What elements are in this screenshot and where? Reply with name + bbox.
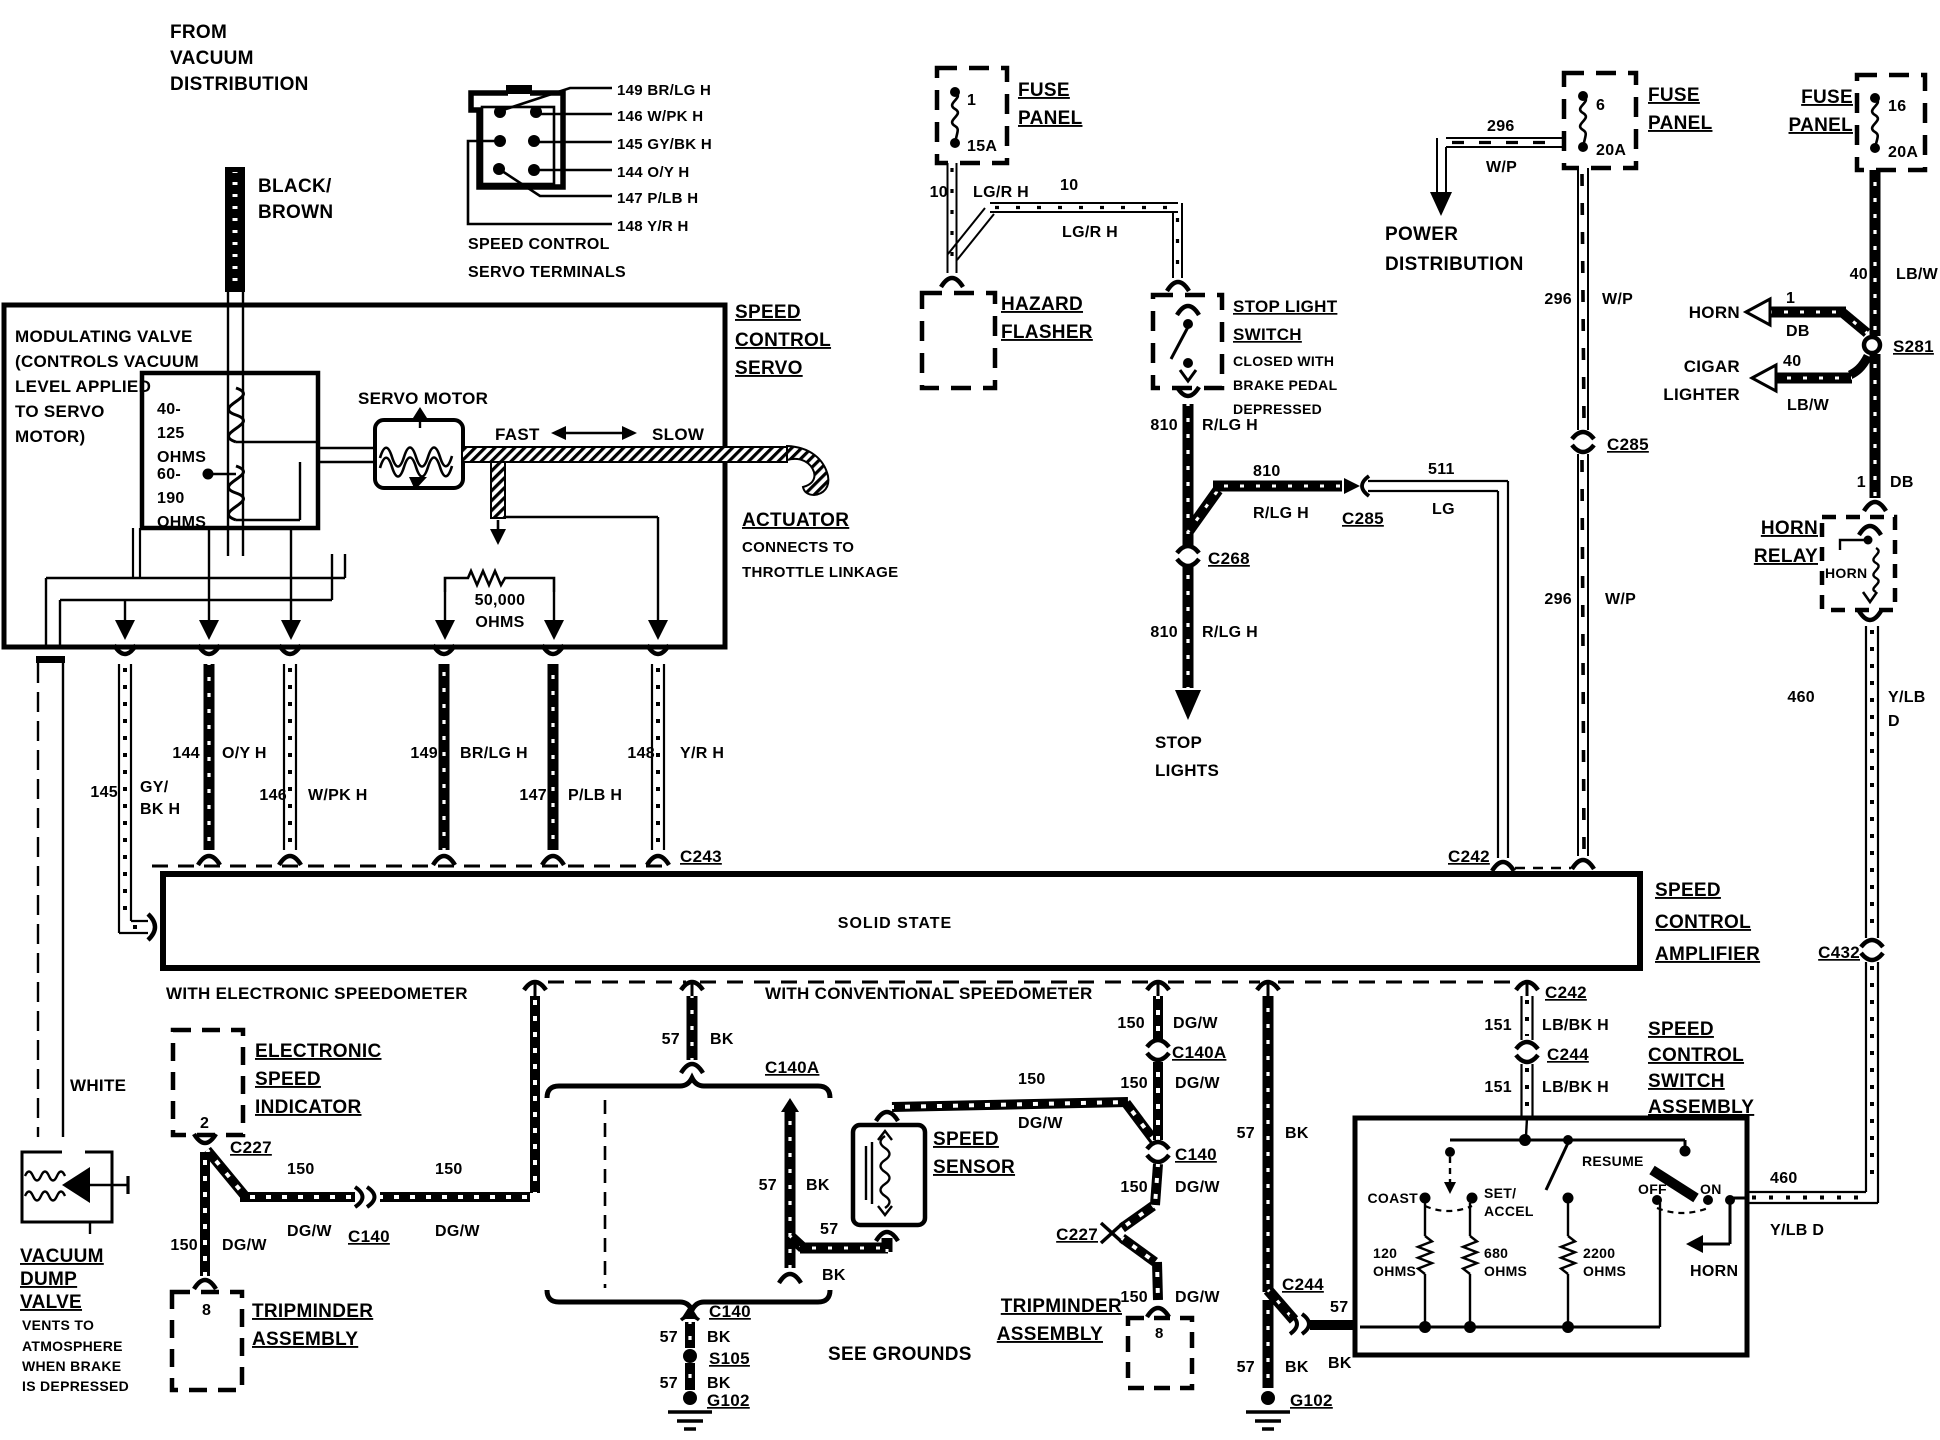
- fuse panel 1 box: [937, 68, 1007, 163]
- svg-text:ON: ON: [1700, 1181, 1722, 1197]
- svg-text:BK: BK: [806, 1177, 830, 1194]
- connector at wire 144 top: [198, 645, 220, 654]
- svg-text:150: 150: [287, 1161, 315, 1178]
- svg-text:Y/LB: Y/LB: [1888, 689, 1926, 706]
- svg-text:STOP: STOP: [1155, 733, 1202, 752]
- svg-text:C268: C268: [1208, 549, 1250, 568]
- svg-text:C244: C244: [1547, 1045, 1589, 1064]
- connector at stop light switch: [1167, 282, 1189, 291]
- contact COAST: [1420, 1193, 1431, 1204]
- svg-text:LG/R H: LG/R H: [973, 184, 1029, 201]
- splice S105: [683, 1349, 697, 1363]
- coil 60-190 ohms: [228, 466, 243, 520]
- wire vacuum tube into servo: [227, 292, 229, 556]
- leader 148 Y/R H: [468, 141, 612, 224]
- svg-text:TRIPMINDER: TRIPMINDER: [252, 1301, 373, 1322]
- svg-text:296: 296: [1487, 118, 1515, 135]
- svg-text:HORN: HORN: [1689, 303, 1740, 322]
- svg-text:OHMS: OHMS: [157, 449, 206, 466]
- svg-text:DG/W: DG/W: [1175, 1179, 1220, 1196]
- svg-text:Y/R H: Y/R H: [680, 745, 724, 762]
- hazard flasher box: [922, 293, 995, 388]
- tripminder assembly box left: [172, 1292, 242, 1390]
- svg-text:R/LG H: R/LG H: [1253, 505, 1309, 522]
- svg-text:SPEED: SPEED: [1648, 1019, 1714, 1040]
- wire 150 DG/W left branch: [207, 1150, 245, 1196]
- interior tube wire left: [46, 577, 345, 579]
- svg-text:BRAKE PEDAL: BRAKE PEDAL: [1233, 377, 1338, 393]
- wire 57 BK to C244: [1268, 1290, 1294, 1320]
- svg-text:CLOSED WITH: CLOSED WITH: [1233, 353, 1334, 369]
- leader 147 P/LB H: [499, 169, 612, 196]
- resume switch arm: [1563, 1135, 1573, 1145]
- fuse panel 3 box: [1857, 75, 1925, 170]
- speed sensor box: [853, 1125, 925, 1225]
- svg-text:LG: LG: [1432, 501, 1455, 518]
- svg-text:15A: 15A: [967, 138, 997, 155]
- on/off switch: [1684, 1140, 1687, 1148]
- resistor 2200 ohms: [1567, 1203, 1569, 1236]
- svg-text:296: 296: [1544, 291, 1572, 308]
- wire 57 BK below amplifier: [687, 996, 698, 1060]
- svg-text:C140: C140: [1175, 1145, 1217, 1164]
- wire 151 inside box: [1526, 1118, 1527, 1136]
- svg-text:RELAY: RELAY: [1754, 546, 1818, 567]
- svg-text:SET/: SET/: [1484, 1185, 1516, 1201]
- svg-text:S105: S105: [709, 1349, 750, 1368]
- wire 57 BK speed sensor loop: [781, 1098, 799, 1112]
- svg-text:WHEN BRAKE: WHEN BRAKE: [22, 1358, 121, 1374]
- wire 149 BR/LG H: [439, 664, 450, 850]
- svg-text:FUSE: FUSE: [1648, 85, 1700, 106]
- arrow to CIGAR LIGHTER: [1752, 365, 1776, 391]
- svg-text:680: 680: [1484, 1245, 1508, 1261]
- arrow to pin 145: [124, 600, 126, 622]
- box modulating valve coils: [142, 373, 318, 528]
- leader 144 O/Y H: [534, 169, 612, 172]
- connector C140 left: [355, 1187, 363, 1207]
- svg-text:SPEED: SPEED: [255, 1069, 321, 1090]
- pin 145: [528, 135, 540, 147]
- svg-text:148 Y/R H: 148 Y/R H: [617, 218, 689, 235]
- svg-text:57: 57: [820, 1221, 838, 1238]
- svg-text:8: 8: [202, 1302, 211, 1319]
- svg-text:P/LB H: P/LB H: [568, 787, 622, 804]
- junction dot bus: [1519, 1134, 1531, 1146]
- svg-text:C140: C140: [348, 1227, 390, 1246]
- ground G102 right: [1261, 1391, 1275, 1405]
- connector at wire 147 bottom: [542, 856, 564, 865]
- svg-text:SENSOR: SENSOR: [933, 1157, 1015, 1178]
- svg-text:W/PK H: W/PK H: [308, 787, 368, 804]
- stop light switch contacts: [1177, 306, 1199, 315]
- svg-text:COAST: COAST: [1368, 1190, 1419, 1206]
- wire 10 LG/R H branch to stop light switch: [948, 208, 985, 254]
- connector C285 vertical: [1572, 432, 1594, 439]
- connector C227 right: [1101, 1223, 1112, 1243]
- connector at wire 148 top: [647, 645, 669, 654]
- wire 150 DG/W conventional upper: [1153, 996, 1163, 1040]
- horn tap inside switch assembly: [1729, 1203, 1732, 1244]
- svg-text:TO SERVO: TO SERVO: [15, 402, 105, 421]
- wire 1 DB to horn: [1843, 313, 1867, 333]
- servo motor arrow down: [409, 477, 427, 490]
- svg-text:296: 296: [1544, 591, 1572, 608]
- horn relay contacts and coil: [1859, 526, 1881, 535]
- svg-text:ATMOSPHERE: ATMOSPHERE: [22, 1338, 123, 1354]
- svg-text:LIGHTER: LIGHTER: [1663, 385, 1740, 404]
- svg-text:57: 57: [662, 1031, 680, 1048]
- svg-text:ASSEMBLY: ASSEMBLY: [1648, 1097, 1754, 1118]
- wire 150 DG/W to C227 right: [1155, 1164, 1158, 1205]
- svg-text:VACUUM: VACUUM: [20, 1246, 104, 1267]
- svg-text:CONNECTS TO: CONNECTS TO: [742, 539, 854, 556]
- svg-text:8: 8: [1155, 1325, 1164, 1342]
- svg-text:SEE GROUNDS: SEE GROUNDS: [828, 1344, 972, 1365]
- svg-text:OHMS: OHMS: [1373, 1263, 1416, 1279]
- svg-text:BK: BK: [1328, 1355, 1352, 1372]
- svg-text:150: 150: [1120, 1179, 1148, 1196]
- dashed stub inside braces: [604, 1100, 607, 1288]
- svg-text:BK H: BK H: [140, 801, 180, 818]
- svg-text:FUSE: FUSE: [1018, 80, 1070, 101]
- svg-text:150: 150: [1120, 1289, 1148, 1306]
- svg-text:C432: C432: [1818, 943, 1860, 962]
- wire 150 DG/W between C140A and C140: [1153, 1062, 1163, 1140]
- brace C140A top: [547, 1078, 830, 1098]
- svg-text:POWER: POWER: [1385, 224, 1458, 245]
- actuator hatched rod: [462, 447, 787, 462]
- svg-text:C140A: C140A: [765, 1058, 819, 1077]
- box speed control switch assembly: [1355, 1118, 1747, 1355]
- fuse 1 15A: [950, 87, 960, 97]
- connector C244 horizontal: [1290, 1314, 1297, 1334]
- svg-text:125: 125: [157, 425, 185, 442]
- svg-text:144: 144: [172, 745, 200, 762]
- svg-text:HORN: HORN: [1825, 565, 1867, 581]
- arrow power distribution: [1430, 192, 1452, 216]
- wire coils to motor: [318, 447, 375, 449]
- leader 149 BR/LG H: [503, 88, 612, 110]
- connector at wire 146 top: [279, 645, 301, 654]
- connector below speed sensor: [876, 1232, 898, 1241]
- svg-text:SERVO MOTOR: SERVO MOTOR: [358, 389, 488, 408]
- dashed joint at C242: [1515, 867, 1571, 870]
- connector at wire 147 top: [542, 645, 564, 654]
- wire 511 LG: [1368, 480, 1508, 482]
- wire 10 LG/R H fuse to hazard flasher: [947, 163, 949, 273]
- svg-text:C285: C285: [1607, 435, 1649, 454]
- svg-text:2: 2: [200, 1115, 209, 1132]
- wire 40 LB/W to cigar lighter: [1850, 356, 1868, 375]
- svg-text:GY/: GY/: [140, 779, 169, 796]
- speed sensor coil: [865, 1146, 867, 1200]
- svg-text:ACCEL: ACCEL: [1484, 1203, 1534, 1219]
- svg-text:PANEL: PANEL: [1018, 108, 1083, 129]
- svg-text:SWITCH: SWITCH: [1648, 1071, 1725, 1092]
- wire 296 W/P vertical: [1577, 168, 1579, 430]
- svg-text:C242: C242: [1448, 847, 1490, 866]
- svg-text:DEPRESSED: DEPRESSED: [1233, 401, 1322, 417]
- svg-text:10: 10: [1060, 177, 1078, 194]
- svg-text:CONTROL: CONTROL: [1648, 1045, 1744, 1066]
- svg-text:Y/LB D: Y/LB D: [1770, 1222, 1824, 1239]
- svg-text:W/P: W/P: [1486, 159, 1517, 176]
- pin 148: [494, 135, 506, 147]
- svg-text:SPEED: SPEED: [1655, 880, 1721, 901]
- wire off contact to bottom bus: [1659, 1203, 1661, 1327]
- svg-text:1: 1: [1857, 474, 1866, 491]
- actuator drop to 50000 ohms: [491, 462, 505, 518]
- junction dot modulating valve: [203, 469, 214, 480]
- box speed control servo: [4, 305, 725, 647]
- svg-text:810: 810: [1150, 417, 1178, 434]
- svg-text:HAZARD: HAZARD: [1001, 294, 1083, 315]
- svg-text:DISTRIBUTION: DISTRIBUTION: [1385, 254, 1524, 275]
- tripminder assembly box right: [1128, 1318, 1192, 1388]
- arrow to stop lights: [1175, 690, 1201, 720]
- svg-text:SPEED: SPEED: [735, 302, 801, 323]
- svg-text:RESUME: RESUME: [1582, 1153, 1644, 1169]
- wire white to vacuum dump valve: [36, 656, 65, 663]
- svg-text:FUSE: FUSE: [1801, 87, 1853, 108]
- svg-text:D: D: [1888, 713, 1900, 730]
- svg-text:TRIPMINDER: TRIPMINDER: [1001, 1296, 1122, 1317]
- svg-text:145: 145: [90, 784, 118, 801]
- svg-text:VALVE: VALVE: [20, 1292, 82, 1313]
- svg-text:SERVO TERMINALS: SERVO TERMINALS: [468, 264, 626, 281]
- connector at horn relay top: [1864, 502, 1886, 511]
- bottom bus switch assembly: [1360, 1326, 1660, 1329]
- connector C140A right: [1147, 1040, 1169, 1047]
- svg-text:DG/W: DG/W: [1018, 1115, 1063, 1132]
- svg-text:W/P: W/P: [1602, 291, 1633, 308]
- svg-text:C140: C140: [709, 1302, 751, 1321]
- arrow to pin 147: [553, 592, 555, 622]
- svg-text:ACTUATOR: ACTUATOR: [742, 510, 849, 531]
- svg-text:147 P/LB H: 147 P/LB H: [617, 190, 698, 207]
- wire 146 W/PK H: [283, 664, 285, 850]
- wire 57 BK into switch assembly: [1310, 1320, 1357, 1330]
- svg-text:INDICATOR: INDICATOR: [255, 1097, 362, 1118]
- wire 145 GY/BK H: [118, 664, 120, 933]
- svg-text:DUMP: DUMP: [20, 1269, 77, 1290]
- brace C140 bottom: [547, 1290, 830, 1310]
- pin 146: [530, 106, 542, 118]
- dashed harness line below amplifier: [548, 981, 686, 984]
- svg-text:57: 57: [1237, 1125, 1255, 1142]
- svg-text:57: 57: [759, 1177, 777, 1194]
- svg-text:DB: DB: [1890, 474, 1914, 491]
- arrow to pin 149: [444, 592, 446, 622]
- connector at wire 144 bottom: [198, 856, 220, 865]
- connector 57 conventional at amplifier: [1257, 982, 1279, 990]
- connector at wire 149 top: [433, 645, 455, 654]
- svg-text:144 O/Y H: 144 O/Y H: [617, 164, 689, 181]
- svg-text:ASSEMBLY: ASSEMBLY: [252, 1329, 358, 1350]
- svg-text:BLACK/: BLACK/: [258, 176, 332, 197]
- svg-text:1: 1: [1786, 290, 1795, 307]
- svg-text:2200: 2200: [1583, 1245, 1615, 1261]
- svg-text:W/P: W/P: [1605, 591, 1636, 608]
- svg-text:40-: 40-: [157, 401, 181, 418]
- arrow to pin 146: [290, 528, 292, 622]
- wire 151 LB/BK H lower: [1520, 1064, 1522, 1118]
- svg-text:150: 150: [1018, 1071, 1046, 1088]
- pin 147: [493, 163, 505, 175]
- connector C242 below amplifier: [1516, 982, 1538, 990]
- svg-text:C243: C243: [680, 847, 722, 866]
- svg-text:6: 6: [1596, 97, 1605, 114]
- svg-text:FROM: FROM: [170, 22, 227, 43]
- svg-text:145 GY/BK H: 145 GY/BK H: [617, 136, 712, 153]
- svg-text:20A: 20A: [1596, 142, 1626, 159]
- svg-text:LB/W: LB/W: [1896, 266, 1939, 283]
- svg-text:1: 1: [967, 92, 976, 109]
- wire 40 LB/W: [1870, 170, 1881, 336]
- svg-text:120: 120: [1373, 1245, 1397, 1261]
- svg-text:C227: C227: [230, 1138, 272, 1157]
- bus line switch assembly: [1450, 1139, 1685, 1142]
- connector at hazard flasher: [941, 278, 963, 287]
- svg-text:BK: BK: [1285, 1125, 1309, 1142]
- connector speed control servo terminals: [471, 93, 563, 187]
- wire actuator feedback: [505, 516, 658, 518]
- svg-text:DG/W: DG/W: [222, 1237, 267, 1254]
- svg-text:MOTOR): MOTOR): [15, 427, 85, 446]
- svg-text:OFF: OFF: [1638, 1181, 1667, 1197]
- svg-text:151: 151: [1484, 1079, 1512, 1096]
- connector C227 left: [194, 1134, 216, 1143]
- wire 150 DG/W to amplifier: [380, 1192, 530, 1202]
- wire 460 to switch assembly: [1733, 1197, 1747, 1200]
- svg-text:810: 810: [1150, 624, 1178, 641]
- connector C432: [1861, 940, 1883, 947]
- connector 57 at amplifier: [681, 982, 703, 990]
- svg-text:PANEL: PANEL: [1648, 113, 1713, 134]
- coast/set selector arm: [1445, 1147, 1455, 1157]
- wire 57 BK to ground right: [1263, 1300, 1274, 1388]
- svg-text:C140A: C140A: [1172, 1043, 1226, 1062]
- svg-text:40: 40: [1850, 266, 1868, 283]
- svg-text:SERVO: SERVO: [735, 358, 803, 379]
- svg-text:CONTROL: CONTROL: [735, 330, 831, 351]
- connector C285 horizontal: [1344, 478, 1360, 494]
- svg-text:20A: 20A: [1888, 144, 1918, 161]
- resistor 680 ohms: [1469, 1203, 1471, 1236]
- connector below stop light switch: [1177, 387, 1199, 396]
- arrow to pin 144: [208, 528, 210, 622]
- svg-text:DG/W: DG/W: [1175, 1075, 1220, 1092]
- svg-text:SWITCH: SWITCH: [1233, 325, 1302, 344]
- svg-text:57: 57: [660, 1329, 678, 1346]
- svg-text:CONTROL: CONTROL: [1655, 912, 1751, 933]
- wire 57 BK conventional: [1263, 996, 1274, 1292]
- svg-text:VACUUM: VACUUM: [170, 48, 254, 69]
- svg-text:60-: 60-: [157, 466, 181, 483]
- horn relay box: [1822, 517, 1895, 610]
- arrow to HORN: [1746, 299, 1770, 325]
- wire inner box bottom stubs: [132, 528, 134, 578]
- connector C268: [1177, 546, 1199, 553]
- svg-text:THROTTLE LINKAGE: THROTTLE LINKAGE: [742, 564, 898, 581]
- connector C244 vertical: [1516, 1042, 1538, 1049]
- resistor 120 ohms: [1424, 1203, 1426, 1236]
- vacuum dump valve: [22, 1152, 112, 1222]
- arrow to pin 148: [657, 517, 659, 622]
- leader 146 W/PK H: [536, 113, 612, 116]
- svg-text:SOLID STATE: SOLID STATE: [838, 915, 952, 932]
- wire 296 W/P to power distribution: [1446, 137, 1564, 139]
- selector dashed arc: [1425, 1206, 1472, 1211]
- connector C140 right: [1147, 1142, 1169, 1149]
- connector at wire 148 bottom: [647, 856, 669, 865]
- svg-text:OHMS: OHMS: [475, 614, 524, 631]
- electronic speed indicator box: [173, 1030, 243, 1135]
- svg-text:146 W/PK H: 146 W/PK H: [617, 108, 703, 125]
- svg-text:WHITE: WHITE: [70, 1076, 126, 1095]
- ground chain C140 S105 G102: [681, 1305, 699, 1319]
- svg-text:57: 57: [1330, 1299, 1348, 1316]
- svg-text:ELECTRONIC: ELECTRONIC: [255, 1041, 382, 1062]
- connector at wire 149 bottom: [433, 856, 455, 865]
- svg-text:LB/BK H: LB/BK H: [1542, 1017, 1609, 1034]
- svg-text:57: 57: [660, 1375, 678, 1392]
- wire 147 P/LB H: [548, 664, 559, 850]
- svg-text:50,000: 50,000: [475, 592, 526, 609]
- svg-text:146: 146: [259, 787, 287, 804]
- svg-text:150: 150: [1117, 1015, 1145, 1032]
- wire 150 DG/W sensor to C140A right: [892, 1102, 1128, 1107]
- svg-text:LB/BK H: LB/BK H: [1542, 1079, 1609, 1096]
- svg-text:460: 460: [1787, 689, 1815, 706]
- svg-text:WITH CONVENTIONAL SPEEDOMETER: WITH CONVENTIONAL SPEEDOMETER: [765, 984, 1093, 1003]
- wire 151 LB/BK H upper: [1520, 996, 1522, 1040]
- svg-text:S281: S281: [1893, 337, 1934, 356]
- svg-text:16: 16: [1888, 98, 1906, 115]
- svg-text:DG/W: DG/W: [287, 1223, 332, 1240]
- svg-text:BR/LG H: BR/LG H: [460, 745, 528, 762]
- connector C243 dashed line: [152, 865, 672, 868]
- svg-text:G102: G102: [1290, 1391, 1333, 1410]
- ground G102 left: [683, 1391, 697, 1405]
- connector at tripminder right: [1147, 1308, 1169, 1317]
- svg-text:MODULATING VALVE: MODULATING VALVE: [15, 327, 193, 346]
- wire 1 DB to horn relay: [1870, 354, 1881, 498]
- leader 145 GY/BK H: [534, 141, 612, 144]
- connector below horn relay: [1859, 611, 1881, 620]
- svg-text:FLASHER: FLASHER: [1001, 322, 1093, 343]
- wire 460 Y/LB D vertical: [1865, 626, 1867, 938]
- wire 810 branch to C285: [1188, 490, 1218, 532]
- svg-text:SPEED: SPEED: [933, 1129, 999, 1150]
- svg-text:STOP LIGHT: STOP LIGHT: [1233, 297, 1338, 316]
- connector 296 at amplifier: [1572, 860, 1594, 869]
- svg-text:C285: C285: [1342, 509, 1384, 528]
- fuse panel 2 box: [1564, 73, 1636, 168]
- svg-text:BK: BK: [707, 1375, 731, 1392]
- connector at wire 145 top: [114, 645, 136, 654]
- svg-text:(CONTROLS VACUUM: (CONTROLS VACUUM: [15, 352, 199, 371]
- box speed control amplifier SOLID STATE: [163, 874, 1640, 968]
- svg-text:C242: C242: [1545, 983, 1587, 1002]
- servo motor: [375, 420, 463, 488]
- pin 149: [494, 106, 506, 118]
- svg-text:BK: BK: [1285, 1359, 1309, 1376]
- svg-text:10: 10: [930, 184, 948, 201]
- svg-text:CIGAR: CIGAR: [1684, 357, 1740, 376]
- connector 511 at amplifier: [1492, 862, 1514, 871]
